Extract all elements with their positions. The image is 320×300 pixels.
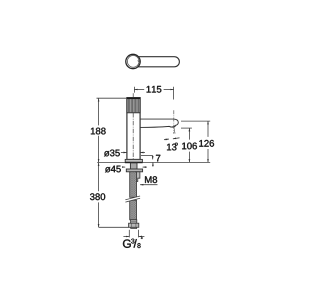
hose end collar [131,220,137,223]
deck line right [143,161,211,163]
hose break lines [125,196,140,202]
lever top view capsule [133,57,179,67]
base flange [125,159,142,162]
dimension dia35 [121,152,145,154]
label 13deg [167,144,176,151]
knurled cap [127,98,141,113]
spout [140,119,179,127]
M8 stud [136,172,140,182]
M8 label and leader [145,176,157,183]
hose upper segment [130,172,137,198]
angle 13 marks [164,138,180,140]
lever knob tick [138,61,139,62]
fixing washer [126,169,142,172]
body centerline [132,93,134,159]
faucet body [127,98,140,160]
outlet centerline [173,110,175,134]
dimension 7 [141,156,153,167]
G3/8 dimension [123,230,144,238]
sub-deck shank nut [130,163,137,169]
fitting nut G3/8 [129,223,139,227]
deck line left [97,161,125,163]
lever top view knob inner circle [127,56,139,68]
label G3/8 [123,238,143,248]
dimension 380 [99,163,129,228]
fitting tip [131,227,137,228]
lever top view knob outer circle [126,54,140,68]
spout outlet lip [169,126,175,127]
hose lower segment [130,200,137,220]
dimension dia45 [122,166,147,168]
dimension 126 [181,121,210,162]
dimension 188 [97,98,128,162]
dimension 106 [181,128,192,162]
dimension 115 [134,87,173,100]
outlet axis tick [174,128,175,134]
